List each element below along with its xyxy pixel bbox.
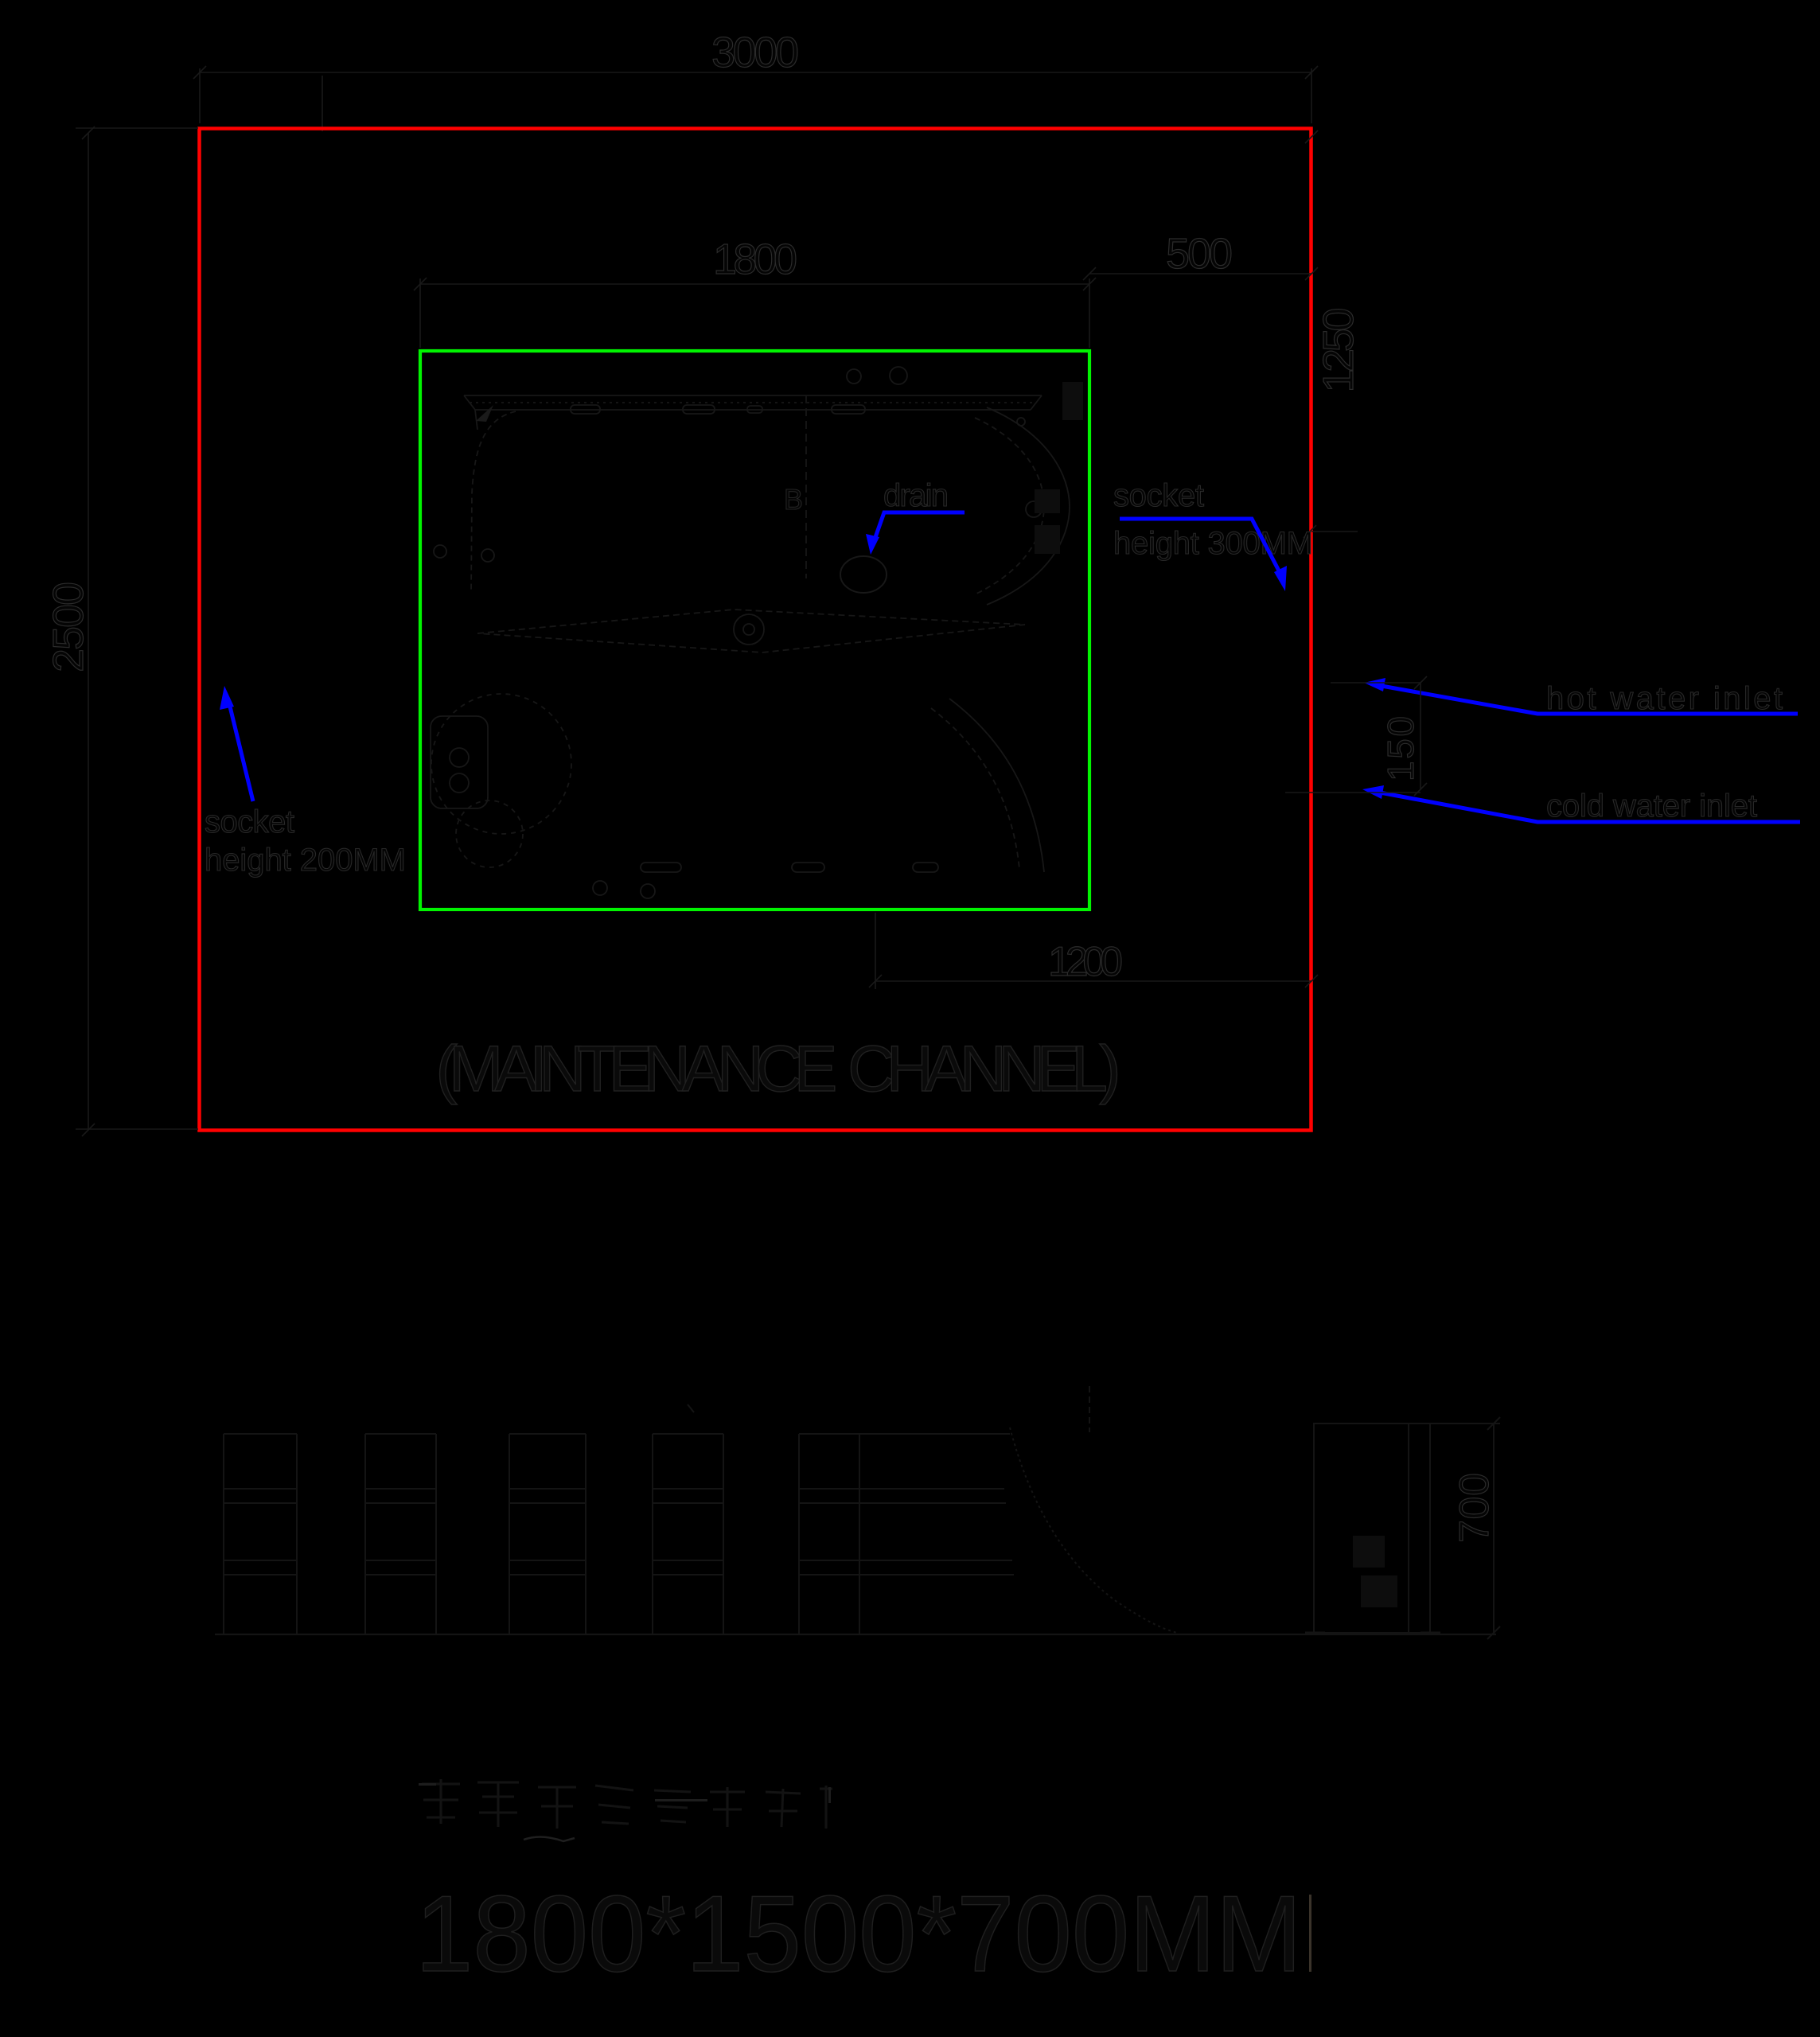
svg-text:500: 500 xyxy=(1166,230,1233,278)
svg-text:socket: socket xyxy=(205,804,294,839)
box inner glyphs xyxy=(1353,1536,1397,1607)
red rectangle (pit outline) xyxy=(200,129,1311,1131)
pump dashed circle small xyxy=(456,800,523,867)
hub inner circle xyxy=(743,624,754,635)
bottom jets slots xyxy=(641,863,681,872)
svg-text:1200: 1200 xyxy=(1048,939,1123,985)
tub fitting marks (right inner) xyxy=(1035,382,1083,554)
svg-text:2500: 2500 xyxy=(45,582,92,672)
right bottom wall curves xyxy=(949,699,1044,872)
pump detail circles xyxy=(450,748,469,767)
dimension 3000 (top overall width) xyxy=(193,66,1318,123)
deck corner bevel right xyxy=(1031,395,1042,410)
caption small text (cjk, nearly invisible) xyxy=(422,1779,832,1829)
right end outer curve xyxy=(987,407,1070,605)
deck small circles left xyxy=(434,545,446,558)
dimension 700 line xyxy=(1493,1424,1495,1633)
right end inner curve xyxy=(975,418,1044,594)
pump box xyxy=(431,716,488,808)
small mark above apron xyxy=(688,1404,694,1412)
left vertical dimension 2500 xyxy=(76,127,198,1136)
title cursor bar xyxy=(1309,1895,1311,1972)
tick mark top-left xyxy=(322,76,323,131)
svg-text:3000: 3000 xyxy=(711,29,799,76)
svg-text:B: B xyxy=(784,483,803,516)
svg-text:1800: 1800 xyxy=(713,236,797,283)
tub deck top edge lines xyxy=(464,395,1042,396)
backrest curve xyxy=(1010,1427,1177,1633)
drain circle xyxy=(840,556,887,593)
ground line xyxy=(215,1634,1496,1635)
waterline lozenge xyxy=(477,610,1025,652)
hub circle xyxy=(734,614,764,645)
leader arrow (drain) xyxy=(866,512,965,555)
svg-text:height 300MM: height 300MM xyxy=(1113,526,1313,561)
leader arrow (right socket) xyxy=(1120,519,1287,591)
pump dashed circle large xyxy=(431,694,571,834)
deck corner bevel left xyxy=(464,395,477,430)
box feet xyxy=(1305,1632,1325,1634)
side elevation drawing (faint ink, bottom half) xyxy=(215,1386,1500,1639)
left inner wall xyxy=(471,411,516,593)
dimension 500 (right margin) xyxy=(1083,267,1318,280)
leader arrow (hot water) xyxy=(1364,678,1798,714)
caption squiggle xyxy=(524,1836,575,1841)
bathtub plan view (faint ink inside green rect) xyxy=(431,367,1070,898)
svg-text:1250: 1250 xyxy=(1315,308,1362,393)
caption edge dots xyxy=(419,1783,831,1803)
leader arrow (left socket) xyxy=(220,686,253,801)
bottom jet circles xyxy=(593,881,607,895)
right vertical dimension 1250 xyxy=(1304,130,1358,538)
svg-text:1800*1500*700MM: 1800*1500*700MM xyxy=(415,1873,1302,1994)
section line B xyxy=(805,395,807,578)
leader arrow (cold water) xyxy=(1362,785,1800,822)
svg-text:drain: drain xyxy=(883,478,949,513)
control box xyxy=(1314,1424,1430,1633)
svg-text:hot water inlet: hot water inlet xyxy=(1546,681,1783,716)
apron lines continuing right xyxy=(859,1433,1010,1435)
deck leader arrowhead xyxy=(476,405,493,422)
apron ladder columns xyxy=(223,1434,224,1634)
dimension 150 (between water inlets) xyxy=(1285,676,1427,796)
faucet holes above deck xyxy=(847,369,861,384)
right end small holes xyxy=(1017,418,1025,426)
dimension 1200 (below green) xyxy=(869,913,1318,989)
svg-text:150: 150 xyxy=(1380,716,1421,781)
svg-text:socket: socket xyxy=(1113,478,1204,513)
green rectangle (tub outline) xyxy=(420,351,1089,909)
dimension 1800 (green width) xyxy=(414,278,1096,348)
svg-text:700: 700 xyxy=(1452,1473,1498,1543)
svg-text:cold water inlet: cold water inlet xyxy=(1546,789,1757,824)
svg-text:(MAINTENANCE CHANNEL): (MAINTENANCE CHANNEL) xyxy=(436,1033,1121,1105)
svg-text:height 200MM: height 200MM xyxy=(205,843,406,878)
centre dashed line xyxy=(1089,1386,1090,1432)
grab slots on deck xyxy=(571,405,600,414)
